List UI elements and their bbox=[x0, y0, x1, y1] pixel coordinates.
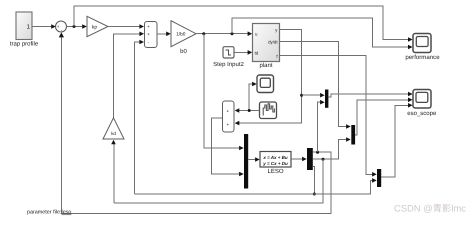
node r junction bbox=[73, 25, 76, 28]
svg-text:+: + bbox=[227, 122, 230, 127]
wire sum S2 output to mux M1 in2 bbox=[212, 118, 241, 174]
mux M4 bbox=[351, 125, 355, 145]
node u junction 1 bbox=[202, 32, 205, 35]
wire z2 branch down to kd bbox=[114, 159, 323, 203]
wire z1 branch up to mux M3 in2 bbox=[318, 102, 322, 152]
svg-text:CSDN @青影lmc: CSDN @青影lmc bbox=[394, 203, 466, 214]
svg-text:+: + bbox=[57, 24, 60, 29]
source block trap profile bbox=[10, 12, 39, 48]
annotation parameter file: leso bbox=[27, 210, 71, 216]
wire mux M4 to eso_scope in2 bbox=[355, 100, 409, 135]
mux M1 bbox=[244, 134, 248, 189]
node z3 junction bbox=[313, 193, 316, 196]
svg-text:plant: plant bbox=[259, 62, 272, 69]
node z1 junction bbox=[316, 151, 319, 154]
wire plant f to mux M5 in1 bbox=[280, 56, 374, 175]
wire u branch to mux M1 in1 bbox=[204, 34, 241, 148]
wire noise junction to scope bbox=[249, 84, 253, 111]
wire reference feedforward to performance in1 bbox=[74, 6, 410, 40]
wire z3 line to sum S3 (left) and mux M5 in2 (right) bbox=[135, 180, 374, 194]
svg-text:td: td bbox=[255, 50, 259, 55]
svg-text:+: + bbox=[147, 32, 150, 37]
state-space block LESO bbox=[260, 152, 291, 176]
svg-text:+: + bbox=[147, 24, 150, 29]
svg-text:x = Ax + Bu: x = Ax + Bu bbox=[262, 155, 288, 160]
wire mux M5 to eso_scope in3 bbox=[381, 105, 409, 177]
sum S1 (circle, + -) bbox=[56, 21, 67, 33]
gain 1/b0 (label b0) bbox=[171, 21, 196, 55]
svg-text:kp: kp bbox=[92, 24, 98, 30]
svg-text:dy/dt: dy/dt bbox=[268, 39, 278, 44]
wire u branch to performance in2 bbox=[232, 18, 410, 47]
sum S3 (rounded, + + -) bbox=[145, 22, 158, 48]
wire sum S1 to gain kp with junction bbox=[66, 24, 87, 29]
source band-limited white noise (mirrored) bbox=[260, 102, 277, 119]
node z2 junction bbox=[322, 158, 325, 161]
scope (unnamed) bbox=[257, 75, 274, 93]
subsystem plant bbox=[253, 24, 280, 70]
wire plant dy/dt to mux M4 in1 bbox=[280, 42, 348, 127]
node noise junction bbox=[248, 109, 251, 112]
svg-text:leso: leso bbox=[62, 210, 72, 216]
wire kp to sum S3 in1 bbox=[108, 24, 144, 29]
wire z2 to gain kd input bbox=[113, 143, 115, 203]
wire mux M1 to LESO bbox=[248, 159, 256, 161]
wire u from 1/b0 to plant with junctions bbox=[196, 31, 252, 36]
scope eso_scope bbox=[407, 90, 437, 118]
svg-text:performance: performance bbox=[405, 54, 440, 61]
svg-text:+: + bbox=[227, 108, 230, 113]
wire gain kd output to sum S3 in2 bbox=[114, 34, 141, 118]
wire Step Input2 to plant td bbox=[234, 50, 252, 55]
svg-text:eso_scope: eso_scope bbox=[407, 111, 437, 117]
svg-text:y = Cx + Du: y = Cx + Du bbox=[262, 161, 288, 166]
wire z3 to sum S3 in3 bbox=[135, 42, 141, 194]
wire z3 from demux down to bottom line bbox=[313, 166, 315, 194]
wire y junction to mux M3 in1 bbox=[302, 94, 322, 96]
mux M3 bbox=[325, 90, 328, 108]
svg-text:b0: b0 bbox=[180, 48, 187, 55]
wire plant y down with junction to mux M3 in1 and to sum S2 in2 bbox=[237, 30, 302, 124]
wire sum S3 to gain 1/b0 bbox=[157, 32, 171, 37]
gain kd (pointing up) bbox=[103, 118, 124, 139]
svg-text:1/b0: 1/b0 bbox=[176, 32, 186, 38]
scope performance bbox=[405, 34, 440, 62]
svg-text:parameter file:: parameter file: bbox=[27, 210, 61, 216]
gain kp bbox=[87, 16, 108, 36]
wire noise to sum S2 in1 with junction bbox=[237, 110, 260, 112]
svg-text:LESO: LESO bbox=[267, 168, 283, 175]
wire LESO to demux D1 bbox=[291, 158, 304, 160]
svg-text:kd: kd bbox=[111, 131, 116, 136]
source Step Input2 bbox=[213, 47, 244, 68]
node u junction 2 bbox=[231, 32, 234, 35]
wire mux M3 to eso_scope in1 bbox=[328, 94, 409, 97]
wire trap profile to sum S1 bbox=[33, 24, 56, 29]
sum S2 (mirrored, + +) bbox=[223, 101, 235, 132]
demux D1 bbox=[307, 148, 313, 170]
svg-text:Step Input2: Step Input2 bbox=[213, 61, 244, 68]
svg-text:trap profile: trap profile bbox=[10, 41, 39, 48]
node y junction bbox=[300, 94, 303, 97]
wire z1 from demux with junction, to mux M3 in2 and to sum S1 feedback bbox=[61, 38, 330, 214]
wire z2 from demux with junction, to mux M4 in2 and to gain kd bbox=[313, 140, 348, 160]
mux M5 bbox=[377, 169, 381, 187]
